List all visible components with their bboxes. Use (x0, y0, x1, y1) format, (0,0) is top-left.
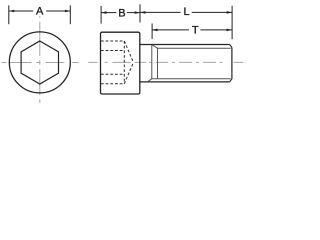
shared extension line L right / T right (231, 6, 233, 40)
thread root line bottom (152, 78, 231, 80)
end view vertical centerline (39, 16, 41, 103)
dimension A arrowheads (9, 10, 71, 13)
dimension T label (192, 25, 199, 37)
full thread boundary line (151, 45, 153, 79)
tip end face (231, 47, 233, 79)
dimension B label (118, 7, 125, 19)
first thread crest line (157, 48, 159, 78)
hidden drill cone upper (124, 41, 133, 62)
dimension B arrowheads (101, 11, 140, 14)
hidden drill cone lower (124, 62, 133, 83)
end view horizontal centerline (2, 62, 79, 64)
shank top outline (140, 44, 230, 46)
dimension A label (36, 5, 44, 17)
hidden socket line bottom corner (101, 83, 124, 85)
dimension A extension line left (8, 5, 10, 24)
dimension L arrowheads (140, 11, 232, 14)
dimension A line (9, 10, 71, 12)
thread runout bottom (148, 79, 152, 82)
shank bottom outline (140, 81, 230, 83)
shared extension line B right / L left (139, 4, 141, 22)
dimension T arrowheads (152, 29, 232, 32)
dimension T extension line left (151, 24, 153, 39)
hex socket (end view) (21, 41, 58, 84)
dimension L label (183, 6, 189, 18)
hidden socket line top flat (101, 50, 124, 52)
hidden socket line top corner (101, 40, 124, 42)
side view centerline (88, 61, 243, 63)
tip chamfer top (230, 45, 232, 48)
tip chamfer bottom (230, 79, 232, 82)
svg-text:L: L (183, 6, 189, 18)
dimension B line (101, 12, 140, 14)
hidden socket line bottom flat (101, 73, 124, 75)
svg-text:A: A (36, 5, 44, 17)
screw head (side view) (101, 32, 140, 94)
thread root line top (158, 47, 231, 49)
hidden socket floor line (123, 41, 125, 84)
thread runout top (152, 45, 158, 49)
svg-text:B: B (118, 7, 125, 19)
dimension T line (152, 29, 232, 31)
dimension B extension line left (100, 6, 102, 24)
dimension A extension line right (69, 5, 71, 24)
svg-text:T: T (192, 25, 199, 37)
dimension L line (140, 11, 232, 13)
head circle (end view) (9, 32, 70, 93)
